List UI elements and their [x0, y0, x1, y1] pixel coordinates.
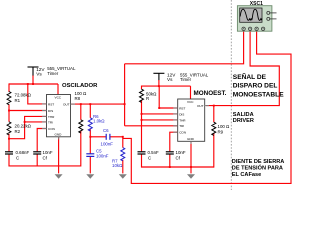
wire mono OUT to scope chB [206, 31, 279, 106]
wire mono bottom rail [142, 166, 214, 168]
svg-text:DRIVER: DRIVER [233, 118, 254, 124]
wire TRI branch [25, 121, 47, 123]
svg-text:20.22kΩ: 20.22kΩ [15, 123, 32, 128]
wire THR branch [9, 116, 47, 138]
wire VCC column [57, 84, 59, 95]
capacitor C5 (blue) [86, 154, 94, 157]
scope body [237, 6, 272, 32]
svg-text:RST: RST [179, 106, 185, 110]
svg-text:GND: GND [55, 133, 63, 137]
wire sawtooth to scope ch3 [123, 31, 291, 184]
svg-text:10kΩ: 10kΩ [112, 163, 123, 168]
wire mono top rail [142, 85, 191, 87]
wire R9 column [213, 106, 215, 123]
svg-text:100nF: 100nF [101, 141, 114, 146]
svg-text:THR: THR [179, 118, 186, 122]
svg-text:100nF: 100nF [96, 153, 109, 158]
capacitor C (0.5nF) [138, 152, 146, 154]
capacitor C6 (blue) [106, 134, 110, 140]
svg-text:R2: R2 [15, 129, 21, 134]
svg-text:10nF: 10nF [43, 150, 53, 155]
svg-text:SEÑAL DE: SEÑAL DE [233, 72, 267, 81]
capacitor Cf (10nF mono) [166, 152, 174, 154]
annotation DIENTE DE SIERRA [232, 159, 285, 178]
svg-text:DIS: DIS [179, 112, 184, 116]
ground (C5) [86, 174, 94, 179]
wire supply stem mono [158, 80, 160, 86]
svg-text:OSCILADOR: OSCILADOR [62, 83, 98, 89]
svg-text:R: R [146, 96, 149, 101]
wire CON branch mono [170, 132, 178, 151]
svg-text:Timer: Timer [180, 77, 192, 82]
svg-text:THR: THR [48, 115, 55, 119]
svg-text:OUT: OUT [197, 104, 204, 108]
resistor R6 (blue virtual) [88, 118, 92, 131]
resistor R2 [7, 122, 11, 135]
supply VS1 T-bar [28, 67, 39, 76]
svg-text:DISPARO DEL: DISPARO DEL [233, 83, 278, 90]
wire DIS branch [9, 110, 47, 112]
wire GND column mono [190, 141, 192, 173]
wire cap Cf to rail mono [169, 154, 171, 167]
svg-text:72.08kΩ: 72.08kΩ [15, 93, 32, 98]
wire GND column [58, 137, 60, 174]
svg-text:RST: RST [48, 102, 54, 106]
svg-text:CON: CON [179, 131, 186, 135]
wire C6 left lead [90, 136, 106, 138]
svg-text:MONOESTABLE: MONOESTABLE [233, 91, 284, 98]
scope screen [240, 8, 262, 22]
scope right connectors [267, 11, 270, 14]
svg-text:Cf: Cf [176, 156, 181, 161]
junction dots [8, 83, 215, 168]
wire C5 to ground [89, 157, 91, 174]
wire R to caps [141, 100, 143, 151]
svg-text:Vs: Vs [167, 77, 173, 82]
svg-text:DIENTE DE SIERRA: DIENTE DE SIERRA [232, 159, 285, 165]
wire RST branch mono [159, 86, 178, 108]
capacitor Cf (10nF) [33, 152, 41, 154]
wire cap C to rail [8, 154, 10, 166]
svg-text:EL CAFase: EL CAFase [232, 172, 261, 178]
page boundary dotted line [230, 0, 232, 190]
annotation SALIDA DRIVER [233, 112, 254, 124]
svg-text:Cf: Cf [43, 156, 48, 161]
scope terminals [242, 27, 265, 30]
resistor R7 (blue virtual) [121, 148, 125, 161]
svg-text:OUT: OUT [63, 103, 70, 107]
op 555 chip U2 [178, 99, 205, 141]
wire DIS branch mono [142, 113, 178, 115]
capacitor C (0.68nF) [5, 152, 13, 154]
resistor R8 [79, 120, 83, 133]
wire R6 column [89, 104, 91, 118]
wire TRI of monostable [125, 125, 178, 127]
wire R7 column [122, 137, 124, 148]
ground (mono chip) [187, 174, 195, 179]
svg-text:GND: GND [187, 137, 195, 141]
wire left column R1 lead [8, 83, 10, 92]
svg-text:TRI: TRI [48, 120, 53, 124]
wire R1-R2 link [8, 104, 10, 122]
svg-text:DE TENSIÓN PARA: DE TENSIÓN PARA [232, 164, 283, 172]
wire VCC column mono [190, 86, 192, 99]
svg-text:0.5nF: 0.5nF [148, 150, 160, 155]
svg-text:R8: R8 [75, 96, 81, 101]
wire cap C to rail [141, 154, 143, 167]
svg-text:C: C [148, 156, 151, 161]
resistor R9 (100 ohm) [212, 122, 216, 135]
svg-text:R1: R1 [15, 98, 21, 103]
svg-text:10nF: 10nF [176, 150, 186, 155]
svg-text:CON: CON [48, 127, 55, 131]
wire R2 to cap C [8, 134, 10, 152]
svg-text:0.68nF: 0.68nF [16, 150, 30, 155]
svg-text:Vs: Vs [36, 72, 42, 77]
svg-text:C: C [16, 156, 19, 161]
svg-text:R9: R9 [218, 129, 224, 134]
wire OUT [71, 103, 125, 105]
svg-text:VCC: VCC [55, 96, 62, 100]
scope waveform [240, 9, 262, 20]
wire RST branch [28, 84, 47, 104]
wire R column top [141, 86, 143, 90]
wire C6 right lead [110, 136, 123, 138]
svg-text:VCC: VCC [187, 100, 194, 104]
ground (R7) [119, 174, 127, 179]
svg-text:1.0kΩ: 1.0kΩ [93, 119, 105, 124]
wire trigger column [124, 64, 126, 126]
resistor R (50k) [140, 89, 144, 102]
wire THR branch mono [142, 119, 178, 121]
op 555 chip U1 [47, 95, 71, 137]
svg-text:TRI: TRI [179, 124, 184, 128]
svg-text:C6: C6 [103, 128, 109, 133]
annotation SEÑAL DE DISPARO DEL MONOESTABLE [233, 72, 284, 99]
svg-text:MONOEST.: MONOEST. [194, 90, 227, 97]
wire cap Cf to rail [36, 154, 38, 166]
wire trigger to scope chA [125, 31, 244, 64]
resistor R1 [7, 92, 11, 105]
wire top rail [9, 83, 58, 85]
wire R8 column [80, 104, 82, 120]
wire CON branch [37, 129, 46, 152]
svg-text:Timer: Timer [47, 71, 59, 76]
svg-text:DIS: DIS [48, 109, 53, 113]
wire supply stem [9, 31, 291, 184]
wire bottom rail [9, 165, 81, 167]
ground (osc chip) [55, 174, 63, 179]
supply VS2 T-bar [153, 73, 164, 80]
